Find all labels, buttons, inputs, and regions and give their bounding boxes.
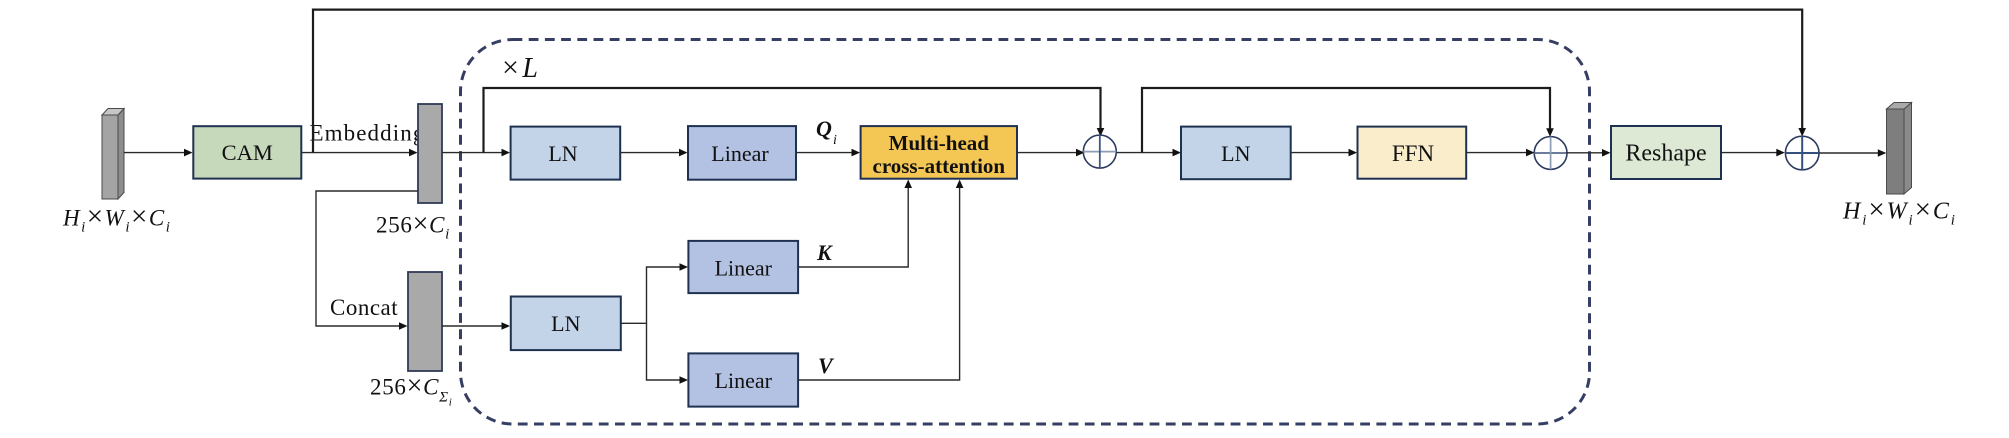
svg-text:LN: LN <box>548 141 577 166</box>
svg-text:Linear: Linear <box>715 256 773 281</box>
svg-text:i: i <box>833 133 837 148</box>
sum node 3 <box>1785 136 1819 170</box>
input tensor 3D bar <box>102 109 124 200</box>
svg-text:K: K <box>816 240 833 265</box>
output tensor 3D bar <box>1887 103 1912 195</box>
wire Linear V to MHA <box>798 186 960 380</box>
sum node 1 <box>1083 135 1116 168</box>
block Reshape <box>1611 126 1721 179</box>
wire LN3 split to Linear V <box>647 323 682 380</box>
concat bar 256xCsum <box>408 272 442 371</box>
block Multi-head cross-attention <box>861 126 1017 179</box>
svg-text:Q: Q <box>816 116 832 141</box>
sum node 2 <box>1534 137 1567 170</box>
wire top skip connection <box>313 10 1802 153</box>
svg-text:cross-attention: cross-attention <box>873 154 1006 178</box>
svg-text:256×Ci: 256×Ci <box>376 209 450 243</box>
block CAM <box>193 126 301 178</box>
block Linear V <box>688 353 798 406</box>
wire LN2 to FFN <box>1291 152 1351 154</box>
wire FFN to sum2 <box>1466 152 1528 154</box>
block Linear1 <box>688 126 796 180</box>
wire concat branch <box>316 191 418 326</box>
svg-text:Embedding: Embedding <box>310 121 426 146</box>
block Linear K <box>688 241 798 293</box>
wire input to CAM <box>124 152 185 154</box>
svg-text:LN: LN <box>1221 141 1250 166</box>
wire embedding bar to LN1 <box>442 152 504 154</box>
svg-text:Reshape: Reshape <box>1625 141 1706 167</box>
wire xL inner skip to sum1 <box>484 88 1101 153</box>
wire LN1 to Linear1 <box>620 152 681 154</box>
block LN3 <box>511 297 621 351</box>
svg-text:Hi×Wi×Ci: Hi×Wi×Ci <box>62 201 171 236</box>
block FFN <box>1358 127 1467 179</box>
svg-text:×L: ×L <box>502 51 538 84</box>
wire Linear K to MHA <box>798 186 908 267</box>
wire CAM to embedding bar <box>301 152 411 154</box>
wire Linear1 to MHA (Q) <box>796 152 853 154</box>
svg-text:FFN: FFN <box>1392 141 1435 166</box>
wire sum3 to output bar <box>1819 152 1879 154</box>
wire skip sum1 to sum2 <box>1142 88 1550 153</box>
block LN2 <box>1181 127 1291 180</box>
svg-text:Linear: Linear <box>711 141 769 166</box>
svg-text:V: V <box>818 353 835 378</box>
svg-text:LN: LN <box>551 311 580 336</box>
wire Reshape to sum3 <box>1721 152 1777 154</box>
svg-text:Multi-head: Multi-head <box>889 131 990 155</box>
wire LN3 split to Linear K <box>621 267 681 323</box>
wire MHA to sum1 <box>1017 152 1078 154</box>
svg-text:Hi×Wi×Ci: Hi×Wi×Ci <box>1842 194 1957 229</box>
svg-text:256×CΣi: 256×CΣi <box>370 371 453 409</box>
svg-text:Linear: Linear <box>715 368 773 393</box>
svg-text:CAM: CAM <box>222 140 273 165</box>
dashed transformer-loop container <box>461 40 1590 425</box>
embedding bar 256xCi <box>418 104 442 203</box>
wire sum2 to Reshape <box>1566 152 1604 154</box>
block LN1 <box>511 127 621 180</box>
wire sum1 to LN2 <box>1117 152 1175 154</box>
svg-text:Concat: Concat <box>330 295 398 320</box>
wire concat bar to LN3 <box>442 325 503 327</box>
